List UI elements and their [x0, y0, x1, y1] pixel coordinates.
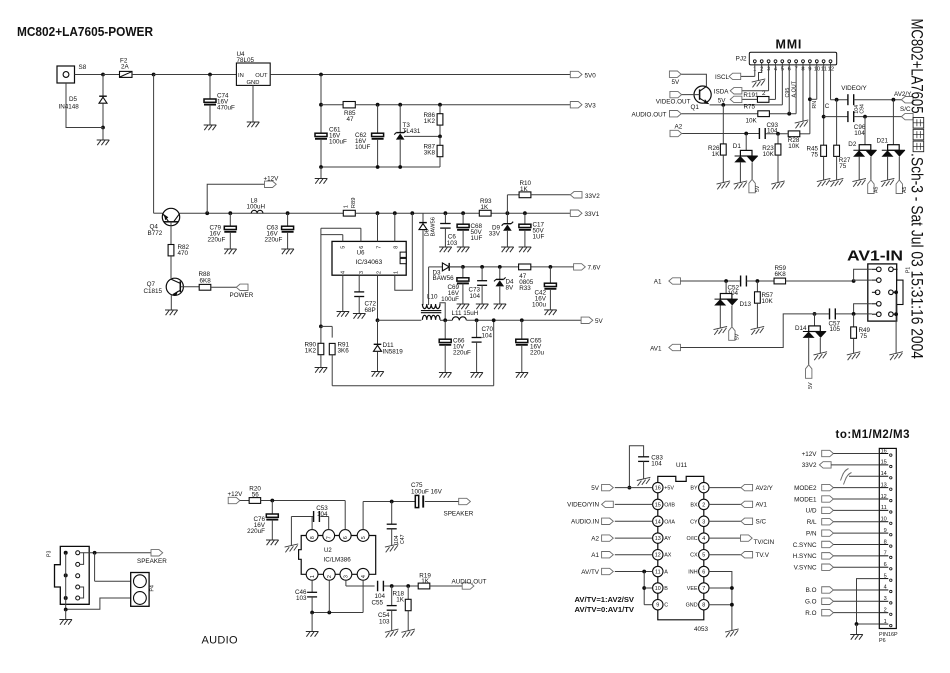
svg-text:47: 47	[347, 116, 355, 123]
wire P3 to SPEAKER	[84, 551, 151, 555]
capacitor C76 220uF	[247, 501, 278, 546]
svg-text:220uF: 220uF	[208, 237, 226, 244]
svg-text:10K: 10K	[762, 298, 774, 305]
connector P6 PIN16P	[879, 448, 898, 644]
svg-text:B: B	[664, 586, 668, 592]
svg-text:100uF: 100uF	[329, 139, 347, 146]
ground PJ2 pin8	[795, 63, 809, 129]
wire U6 pin1 to rail	[395, 213, 413, 290]
svg-text:R191: R191	[743, 92, 759, 99]
flag 33V2 P6 pin15	[802, 462, 880, 470]
svg-text:POWER: POWER	[230, 292, 254, 299]
title AV1-IN	[847, 248, 903, 265]
svg-text:3: 3	[702, 519, 705, 525]
flag B.O P6 pin4	[806, 587, 880, 595]
resistor R90 1K2	[304, 326, 327, 372]
capacitor C47 104	[385, 502, 406, 553]
svg-text:SPEAKER: SPEAKER	[137, 558, 167, 565]
flag +12V audio	[228, 491, 244, 504]
svg-text:MMI: MMI	[776, 38, 803, 52]
flag A2	[670, 124, 683, 137]
svg-text:GND: GND	[247, 80, 260, 86]
svg-text:V.SYNC: V.SYNC	[794, 565, 817, 572]
svg-text:12: 12	[655, 553, 661, 559]
flag 33V2	[570, 192, 600, 200]
wire feedback bottom rail	[332, 321, 494, 386]
connector S8	[57, 64, 87, 83]
capacitor C69 100uF	[441, 267, 469, 309]
capacitor C46 103	[295, 580, 317, 612]
svg-text:IN5819: IN5819	[383, 349, 404, 356]
svg-text:6: 6	[343, 536, 349, 539]
wire U6 pin2 switch node	[377, 275, 379, 320]
flag 5V Q1 collector	[669, 71, 681, 86]
svg-text:S/C: S/C	[756, 519, 767, 526]
svg-text:33V1: 33V1	[585, 211, 600, 218]
svg-text:AV/TV: AV/TV	[581, 569, 600, 576]
resistor R191 2	[740, 63, 775, 103]
svg-text:5V: 5V	[755, 185, 761, 192]
svg-text:ISCL: ISCL	[715, 74, 729, 81]
svg-text:5V: 5V	[672, 79, 681, 86]
diode D6 BAW56	[419, 213, 437, 305]
svg-text:5: 5	[702, 553, 705, 559]
svg-text:5V: 5V	[718, 97, 727, 104]
connector P1 AV1-IN	[868, 264, 912, 321]
wire S8 return	[66, 83, 103, 128]
capacitor C96 104	[824, 111, 866, 137]
svg-text:L10: L10	[427, 294, 438, 301]
svg-text:100uH: 100uH	[247, 204, 266, 211]
svg-text:B.O: B.O	[806, 587, 817, 594]
shunt reference T3 TL431	[394, 105, 440, 167]
svg-text:15: 15	[655, 502, 661, 508]
svg-text:75: 75	[860, 333, 868, 340]
svg-text:INH: INH	[688, 570, 697, 576]
wire AV/TV to pins 10 9	[642, 570, 652, 605]
flag G.O P6 pin3	[805, 598, 879, 606]
svg-text:MODE2: MODE2	[794, 485, 817, 492]
svg-text:AY: AY	[664, 536, 671, 542]
svg-text:P6: P6	[879, 638, 886, 644]
flag SPEAKER audio	[444, 498, 474, 517]
svg-text:33V: 33V	[489, 231, 501, 238]
svg-text:7: 7	[702, 586, 705, 592]
wire S8 to D5 node	[75, 73, 105, 77]
capacitor C83 104	[628, 446, 664, 490]
svg-text:BX: BX	[690, 502, 698, 508]
resistor R87 3K8	[423, 136, 442, 167]
svg-text:16: 16	[655, 486, 661, 492]
resistor R45 75	[806, 145, 830, 187]
flag A5 under D2	[868, 180, 880, 194]
svg-text:OUT: OUT	[255, 73, 268, 79]
capacitor C61 100uF	[315, 127, 347, 168]
svg-text:Q1: Q1	[691, 104, 700, 111]
capacitor C94 video Y	[841, 85, 867, 114]
svg-text:AV/TV=0:AV1/TV: AV/TV=0:AV1/TV	[575, 605, 635, 614]
svg-text:100uF 16V: 100uF 16V	[411, 489, 443, 496]
svg-text:R33: R33	[519, 285, 531, 292]
svg-text:11: 11	[655, 570, 661, 576]
svg-text:U11: U11	[676, 462, 688, 469]
svg-text:D21: D21	[877, 137, 889, 144]
svg-text:VIDEO.OUT: VIDEO.OUT	[656, 99, 691, 106]
svg-text:P3: P3	[47, 551, 53, 557]
wire feedback node to dividers	[319, 325, 332, 338]
wire 7.6V rail	[449, 265, 573, 269]
no-connect P6 pin14	[841, 469, 880, 485]
svg-text:33V2: 33V2	[585, 193, 600, 200]
capacitor C75 100uF	[411, 482, 459, 508]
svg-text:68P: 68P	[365, 307, 376, 314]
diode D3 feed wire	[449, 266, 463, 268]
wire PJ2 pin11 C line	[822, 63, 830, 146]
svg-text:O/IB: O/IB	[664, 502, 675, 508]
transistor Q4 B772	[148, 208, 180, 244]
svg-text:6: 6	[359, 246, 365, 249]
dual diode D1	[733, 134, 758, 190]
flag 5V0	[570, 71, 596, 79]
svg-text:6K8: 6K8	[775, 271, 787, 278]
svg-text:1K: 1K	[520, 186, 529, 193]
svg-text:6: 6	[702, 570, 705, 576]
svg-text:220u: 220u	[530, 350, 545, 357]
title to:M1/M2/M3	[836, 429, 911, 441]
svg-text:L11 15uH: L11 15uH	[452, 310, 479, 317]
svg-text:AV/TV=1:AV2/SV: AV/TV=1:AV2/SV	[575, 595, 635, 604]
ground U6 pin4	[337, 275, 350, 317]
svg-text:5V: 5V	[808, 382, 814, 389]
svg-text:4: 4	[884, 585, 887, 591]
flag POWER	[230, 284, 254, 299]
label C95 A.OUT	[785, 80, 797, 97]
resistor R93 1K	[479, 198, 492, 216]
resistor R85 47	[321, 102, 570, 123]
flag 5V mmi input	[718, 96, 742, 104]
side title vertical text	[908, 19, 926, 360]
wire P6 pin5 pin1 ground	[855, 579, 880, 635]
svg-text:7: 7	[376, 246, 382, 249]
svg-text:7.6V: 7.6V	[588, 265, 602, 272]
flag R.O P6 pin2	[805, 609, 879, 617]
wire PJ2 pin3 ISDA	[741, 63, 769, 91]
dual diode D13	[714, 281, 752, 335]
svg-text:104: 104	[469, 293, 480, 300]
svg-text:to:M1/M2/M3: to:M1/M2/M3	[836, 429, 911, 441]
regulator U4 78L05	[236, 51, 270, 127]
svg-text:13: 13	[881, 482, 887, 488]
resistor R86 1K2	[423, 105, 442, 139]
svg-text:105: 105	[830, 326, 841, 333]
svg-text:C: C	[825, 103, 830, 110]
svg-text:16: 16	[881, 448, 887, 454]
connector PJ2	[736, 52, 837, 72]
flag A1	[654, 278, 681, 286]
title MC802+LA7605-POWER	[17, 25, 153, 39]
svg-text:12: 12	[881, 494, 887, 500]
svg-text:104: 104	[482, 332, 493, 339]
resistor R23 10K	[762, 134, 785, 190]
flag U/D P6 pin11	[806, 507, 880, 515]
svg-text:75: 75	[811, 152, 819, 159]
resistor R27 75	[830, 145, 851, 187]
transformer L10	[421, 294, 445, 321]
svg-text:A1: A1	[591, 552, 599, 559]
svg-text:SPEAKER: SPEAKER	[444, 510, 474, 517]
svg-text:C94: C94	[860, 104, 866, 114]
svg-text:VIDEO/Y: VIDEO/Y	[841, 85, 867, 92]
svg-text:ISDA: ISDA	[714, 89, 729, 96]
svg-text:15: 15	[881, 460, 887, 466]
svg-text:14: 14	[655, 519, 661, 525]
svg-text:6: 6	[884, 562, 887, 568]
svg-text:S8: S8	[79, 64, 87, 71]
flag 5V	[581, 317, 603, 325]
flag ISCL	[715, 73, 741, 81]
svg-text:5: 5	[884, 573, 887, 579]
svg-text:O/IC: O/IC	[687, 536, 698, 542]
diode D11 1N5819	[371, 318, 403, 376]
svg-text:A5: A5	[874, 187, 880, 193]
capacitor C42 100u	[532, 267, 557, 315]
svg-text:RN: RN	[812, 101, 818, 109]
svg-text:A2: A2	[591, 535, 599, 542]
svg-text:A1: A1	[654, 279, 662, 286]
wire A2 line	[682, 132, 759, 136]
resistor R88 6K8	[181, 271, 236, 290]
ground below D5	[97, 128, 110, 146]
svg-text:AUDIO: AUDIO	[202, 635, 238, 647]
svg-text:103: 103	[296, 595, 307, 602]
svg-text:AUDIO.OUT: AUDIO.OUT	[452, 578, 487, 585]
svg-text:1K: 1K	[421, 578, 430, 585]
capacitor C52 104	[728, 276, 747, 298]
svg-text:3: 3	[884, 596, 887, 602]
svg-text:33V2: 33V2	[802, 462, 817, 469]
flag C.SYNC P6 pin8	[793, 541, 880, 549]
svg-text:C47: C47	[400, 534, 406, 544]
svg-text:BAW56: BAW56	[431, 217, 437, 236]
svg-text:PIN16P: PIN16P	[879, 632, 898, 638]
resistor R10 1K	[507, 180, 570, 213]
flags U11 left inputs	[567, 484, 652, 575]
flag AV2/Y	[894, 91, 913, 103]
svg-text:2: 2	[376, 271, 382, 274]
svg-text:4: 4	[361, 575, 367, 578]
capacitor C79 220uF	[208, 213, 237, 254]
wire to S/C	[854, 115, 902, 119]
svg-text:10: 10	[655, 586, 661, 592]
capacitor C17 1UF	[519, 213, 545, 252]
svg-text:104: 104	[767, 128, 778, 135]
wire U6 pin5 pin6 feedback	[321, 228, 361, 326]
flag 5V under D1	[749, 179, 761, 193]
svg-text:8: 8	[702, 603, 705, 609]
svg-text:3K8: 3K8	[424, 150, 436, 157]
flag VIDEO.OUT	[656, 91, 691, 105]
diode D3 BAW56	[429, 263, 455, 305]
svg-text:A: A	[664, 570, 668, 576]
flag P/N P6 pin9	[806, 530, 879, 538]
wire P3 to P4 top	[95, 553, 131, 581]
flag +12V P6 pin16	[802, 450, 880, 458]
resistor R26 1K	[708, 105, 730, 190]
svg-text:VIDEO/YIN: VIDEO/YIN	[567, 502, 599, 509]
wire main 12V input rail	[154, 75, 237, 214]
svg-text:D5: D5	[69, 96, 78, 103]
svg-text:104: 104	[854, 130, 865, 137]
svg-text:5V: 5V	[735, 333, 741, 340]
capacitor C62 10UF	[355, 105, 384, 167]
IC U2 LM386	[299, 530, 376, 581]
resistor R57 10K	[751, 281, 774, 335]
flags U11 right outputs	[709, 484, 775, 559]
svg-text:D2: D2	[848, 141, 857, 148]
ground U2 rail	[306, 632, 319, 637]
svg-text:A.OUT: A.OUT	[792, 80, 798, 97]
svg-text:AV2/Y: AV2/Y	[756, 485, 774, 492]
svg-text:2: 2	[327, 575, 333, 578]
wire U4 output 5V0 rail	[270, 73, 570, 77]
svg-text:D13: D13	[740, 301, 752, 308]
transistor Q7 C1815	[143, 278, 183, 310]
flag R/L P6 pin10	[807, 519, 880, 527]
capacitor C70 104	[470, 320, 493, 377]
wire C52 to R59	[746, 279, 774, 283]
svg-text:8: 8	[884, 539, 887, 545]
svg-text:3: 3	[359, 271, 365, 274]
zener D4 8V	[494, 267, 515, 309]
svg-text:+12V: +12V	[264, 176, 280, 183]
capacitor C63 220uF	[265, 213, 294, 254]
wire 5V rail	[440, 318, 581, 322]
svg-text:AV1-IN: AV1-IN	[847, 248, 903, 265]
capacitor C74 470uF	[204, 73, 235, 131]
flag S/C	[900, 106, 913, 120]
svg-text:6K8: 6K8	[200, 277, 212, 284]
svg-text:2: 2	[702, 502, 705, 508]
wire 33V1 rail	[423, 211, 570, 215]
svg-text:5: 5	[341, 246, 347, 249]
wire AV1 chroma line to P1 rows 4 5	[813, 304, 872, 316]
title AUDIO	[202, 635, 238, 647]
wire P4 bottom return	[64, 598, 131, 611]
connector P3	[47, 546, 90, 609]
capacitor C93 104	[759, 122, 778, 139]
wire A1 to P1 rows 1 2	[854, 269, 872, 281]
svg-text:8V: 8V	[506, 285, 515, 292]
fuse F2 2A	[103, 58, 156, 78]
svg-text:470: 470	[178, 250, 189, 257]
svg-text:C1815: C1815	[143, 288, 162, 295]
svg-text:IC/34063: IC/34063	[356, 259, 383, 266]
svg-text:R/L: R/L	[807, 519, 817, 526]
svg-text:4: 4	[341, 271, 347, 274]
svg-text:220uF: 220uF	[247, 528, 265, 535]
ground U11	[725, 629, 739, 638]
flag AUDIO.OUT	[632, 111, 682, 119]
svg-text:7: 7	[884, 551, 887, 557]
svg-text:103: 103	[379, 618, 390, 625]
svg-text:IN: IN	[238, 73, 244, 79]
wire 3V3 bottom rail	[319, 165, 440, 169]
wire U2 ground rail	[310, 580, 363, 631]
IC U6 MC34063	[332, 241, 406, 275]
svg-text:100uF: 100uF	[441, 296, 459, 303]
svg-text:U2: U2	[324, 548, 332, 554]
wire PJ2 pin1 ISCL	[741, 63, 755, 77]
wire Q4 emitter from input	[154, 212, 163, 214]
IC U11 4053	[653, 462, 709, 633]
inductor L11 15uH	[452, 310, 479, 320]
svg-text:220uF: 220uF	[265, 237, 283, 244]
ground below C61 rail	[315, 167, 328, 184]
wire +12V audio rail	[261, 499, 346, 503]
svg-text:A5: A5	[902, 187, 908, 193]
svg-text:O/IA: O/IA	[664, 519, 675, 525]
flag 5V under D13	[729, 327, 741, 341]
svg-text:U6: U6	[357, 250, 365, 256]
svg-text:78L05: 78L05	[237, 57, 255, 64]
svg-text:56: 56	[252, 492, 260, 499]
dual diode D14	[795, 314, 827, 365]
wire PJ2 pin12 video Y	[831, 63, 848, 146]
wire PJ2 pin5 video	[710, 63, 783, 107]
svg-text:220uF: 220uF	[453, 350, 471, 357]
svg-text:C55: C55	[372, 600, 384, 607]
wire U2 pin6 supply	[344, 501, 346, 530]
ground below Q7	[165, 310, 178, 315]
resistor R82 470	[168, 244, 189, 278]
svg-text:104: 104	[651, 460, 662, 467]
svg-text:P4: P4	[150, 585, 156, 591]
zener D9 33V	[489, 213, 514, 252]
svg-text:104: 104	[394, 535, 400, 544]
svg-text:8: 8	[394, 246, 400, 249]
flag 33V1	[570, 210, 599, 218]
flag AUDIO.OUT audio	[452, 578, 487, 589]
flag +12V power	[207, 176, 279, 214]
flag H.SYNC P6 pin7	[793, 553, 880, 561]
svg-text:P1: P1	[906, 267, 912, 273]
svg-text:1K: 1K	[712, 151, 721, 158]
inductor L8 100uH	[247, 198, 266, 214]
connector P4	[131, 573, 156, 607]
svg-text:H.SYNC: H.SYNC	[793, 553, 817, 560]
svg-text:10: 10	[881, 517, 887, 523]
svg-text:4053: 4053	[694, 626, 709, 633]
svg-text:5V: 5V	[591, 485, 600, 492]
svg-text:75: 75	[839, 163, 847, 170]
resistor R28 10K	[766, 131, 810, 150]
label AV/TV logic	[575, 595, 635, 614]
flag 5V under D14	[806, 365, 815, 389]
svg-text:103: 103	[447, 240, 458, 247]
svg-text:11: 11	[881, 505, 887, 511]
flag SPEAKER P3	[137, 550, 167, 565]
wire AV1 line	[681, 314, 815, 348]
svg-text:10K: 10K	[763, 151, 775, 158]
flag MODE2 P6 pin13	[794, 484, 879, 492]
flag 7.6V	[574, 264, 602, 272]
svg-text:1: 1	[344, 205, 350, 208]
svg-text:G.O: G.O	[805, 599, 817, 606]
svg-text:A2: A2	[675, 124, 683, 131]
svg-text:C95: C95	[785, 88, 791, 98]
svg-text:R75: R75	[744, 104, 756, 111]
capacitor C55 104	[372, 581, 419, 607]
